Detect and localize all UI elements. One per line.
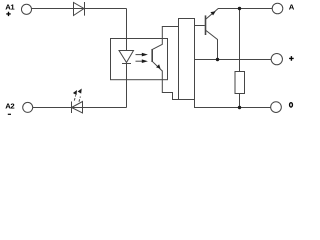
svg-text:A2: A2: [5, 101, 14, 110]
svg-text:A1: A1: [5, 3, 15, 12]
svg-text:A: A: [289, 2, 295, 11]
